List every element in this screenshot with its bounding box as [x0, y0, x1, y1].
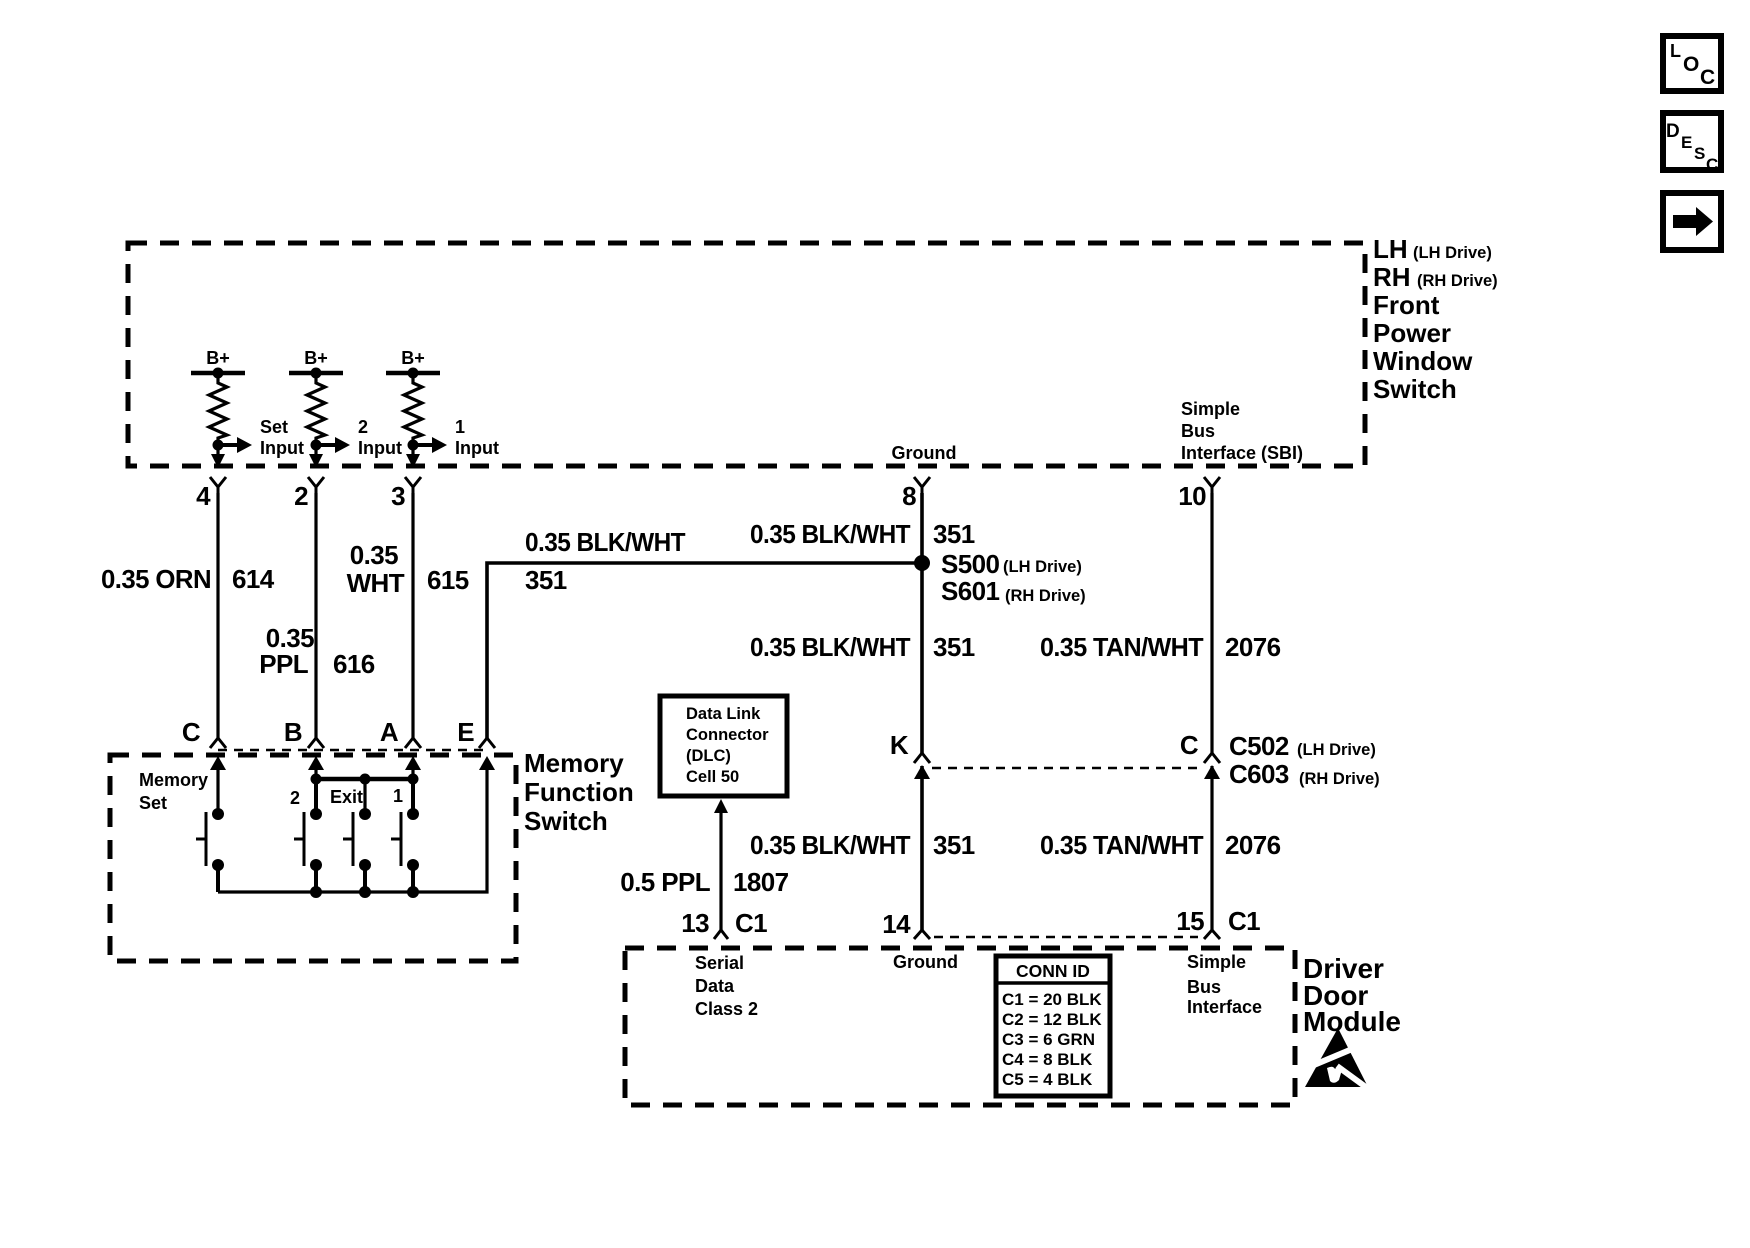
pull-up resistor 1	[209, 373, 227, 445]
svg-text:Data Link: Data Link	[686, 705, 761, 723]
Driver Door Module box	[625, 948, 1295, 1105]
pushbutton switch 2	[294, 808, 322, 892]
svg-text:Cell 50: Cell 50	[686, 768, 739, 786]
Front Power Window Switch box	[128, 243, 1365, 466]
svg-text:C: C	[182, 717, 201, 747]
svg-text:3: 3	[391, 481, 405, 511]
label 0.35 BLK/WHT 351 (mid ground segment)	[750, 632, 975, 662]
B+ supply 2	[289, 348, 343, 379]
wire 616 (0.35 PPL) pin2 to B	[314, 493, 317, 738]
pin 3 connector terminal	[391, 477, 421, 511]
svg-text:Interface: Interface	[1187, 997, 1262, 1017]
CONN ID table	[996, 956, 1110, 1096]
label 0.5 PPL 1807	[620, 867, 788, 897]
svg-text:C1: C1	[735, 908, 767, 938]
svg-text:Input: Input	[260, 438, 304, 458]
pin 10 connector terminal	[1178, 477, 1220, 511]
svg-text:616: 616	[333, 649, 375, 679]
svg-text:(DLC): (DLC)	[686, 747, 731, 765]
label 0.35 ORN 614	[101, 564, 275, 594]
svg-text:2: 2	[358, 417, 368, 437]
junction node and 2 Input arrow	[311, 417, 402, 458]
icon button DESC	[1663, 113, 1721, 174]
svg-text:S500: S500	[941, 549, 999, 579]
svg-text:C5 = 4 BLK: C5 = 4 BLK	[1002, 1070, 1093, 1089]
wire with down arrow to pin 3	[406, 445, 420, 468]
svg-text:13: 13	[681, 908, 709, 938]
svg-text:C2 = 12 BLK: C2 = 12 BLK	[1002, 1010, 1102, 1029]
svg-text:E: E	[1681, 133, 1692, 152]
svg-text:(RH Drive): (RH Drive)	[1299, 770, 1380, 788]
wire B down to switch 2	[314, 779, 318, 814]
in-line connector C (male arrow half)	[1204, 765, 1220, 779]
wire 351 ground: pin 8 down to K	[920, 493, 924, 753]
pin 15 terminal C1	[1176, 906, 1260, 939]
svg-text:B+: B+	[401, 348, 425, 368]
letter K	[890, 730, 909, 760]
svg-text:(RH Drive): (RH Drive)	[1005, 587, 1086, 605]
label Ground (pin 8)	[892, 443, 957, 463]
label Simple Bus Interface (SBI) (pin 10)	[1181, 399, 1303, 463]
svg-text:Exit: Exit	[330, 787, 363, 807]
wire C down to Memory Set switch	[216, 779, 219, 814]
in-line connector half (female) at C	[210, 738, 226, 748]
svg-text:Input: Input	[358, 438, 402, 458]
svg-text:L: L	[1670, 41, 1681, 61]
junction node and 1 Input arrow	[408, 417, 499, 458]
svg-text:Power: Power	[1373, 318, 1451, 348]
svg-text:Connector: Connector	[686, 726, 769, 744]
svg-text:Front: Front	[1373, 290, 1440, 320]
svg-text:Set: Set	[260, 417, 288, 437]
svg-text:351: 351	[933, 830, 975, 860]
svg-text:Ground: Ground	[892, 443, 957, 463]
label 0.35 BLK/WHT 351 (above horizontal run)	[525, 527, 686, 595]
dashed connector link K to C	[932, 767, 1200, 770]
pin 2 connector terminal	[294, 477, 324, 511]
pin 4 connector terminal	[196, 477, 226, 511]
svg-text:C502: C502	[1229, 731, 1289, 761]
Memory Function Switch box	[110, 755, 516, 961]
svg-text:LH: LH	[1373, 234, 1408, 264]
svg-text:B: B	[284, 717, 302, 747]
wire Exit switch drop	[363, 779, 366, 814]
svg-text:Simple: Simple	[1181, 399, 1240, 419]
svg-text:S601: S601	[941, 576, 999, 606]
in-line connector half (male arrow) at A	[405, 756, 421, 779]
junction node and Set Input arrow	[213, 417, 304, 458]
svg-text:2076: 2076	[1225, 632, 1281, 662]
svg-text:C603: C603	[1229, 759, 1289, 789]
svg-text:(RH Drive): (RH Drive)	[1417, 272, 1498, 290]
svg-text:S: S	[1694, 144, 1705, 163]
letter C	[1180, 730, 1199, 760]
switch labels 2 Exit 1	[290, 786, 403, 808]
label 0.35 TAN/WHT 2076 (lower SBI segment)	[1040, 830, 1281, 860]
svg-text:(LH Drive): (LH Drive)	[1297, 741, 1376, 759]
top bus bar linking switches 2/Exit/1	[311, 774, 419, 785]
svg-text:B+: B+	[206, 348, 230, 368]
svg-text:C1 = 20 BLK: C1 = 20 BLK	[1002, 990, 1102, 1009]
svg-text:351: 351	[933, 519, 975, 549]
Data Link Connector (DLC) box	[660, 696, 787, 796]
svg-text:Function: Function	[524, 777, 634, 807]
in-line connector half (male arrow) at E	[479, 756, 495, 779]
svg-text:PPL: PPL	[259, 649, 308, 679]
label S500 (LH Drive) S601 (RH Drive)	[941, 549, 1086, 606]
label Serial Data Class 2	[695, 953, 758, 1019]
svg-text:615: 615	[427, 565, 469, 595]
in-line connector K (female half)	[914, 753, 930, 763]
svg-text:Class 2: Class 2	[695, 999, 758, 1019]
svg-text:D: D	[1666, 121, 1680, 142]
svg-text:10: 10	[1178, 481, 1206, 511]
svg-text:0.35 BLK/WHT: 0.35 BLK/WHT	[750, 632, 911, 662]
svg-text:Ground: Ground	[893, 952, 958, 972]
pin 8 connector terminal	[902, 477, 930, 511]
svg-text:8: 8	[902, 481, 916, 511]
svg-text:Simple: Simple	[1187, 952, 1246, 972]
label Driver Door Module	[1303, 953, 1401, 1037]
svg-text:C: C	[1700, 66, 1715, 89]
svg-text:Memory: Memory	[139, 770, 208, 790]
in-line connector K (male arrow half)	[914, 765, 930, 779]
svg-text:0.35 BLK/WHT: 0.35 BLK/WHT	[525, 527, 686, 557]
svg-text:15: 15	[1176, 906, 1204, 936]
wire A down to switch 1	[411, 779, 415, 814]
svg-text:K: K	[890, 730, 909, 760]
svg-text:Window: Window	[1373, 346, 1473, 376]
in-line connector half (male arrow) at C	[210, 756, 226, 779]
svg-text:1: 1	[393, 786, 403, 806]
svg-text:Data: Data	[695, 976, 735, 996]
in-line connector half (male arrow) at B	[308, 756, 324, 779]
svg-text:Memory: Memory	[524, 748, 624, 778]
label Memory Function Switch	[524, 748, 634, 836]
svg-text:O: O	[1683, 53, 1699, 76]
wire with down arrow to pin 4	[211, 445, 225, 468]
icon button forward arrow	[1663, 193, 1721, 250]
pushbutton switch Exit	[343, 808, 371, 892]
wire with down arrow to pin 2	[309, 445, 323, 468]
in-line connector C (female half)	[1204, 753, 1220, 763]
label Front Power Window Switch	[1373, 234, 1498, 404]
pushbutton switch 1	[391, 808, 419, 892]
svg-text:0.35 ORN: 0.35 ORN	[101, 564, 211, 594]
label Ground (pin 14)	[893, 952, 958, 972]
in-line connector half (female) at B	[308, 738, 324, 748]
svg-text:C: C	[1180, 730, 1199, 760]
svg-text:0.35 TAN/WHT: 0.35 TAN/WHT	[1040, 632, 1204, 662]
svg-text:Bus: Bus	[1187, 977, 1221, 997]
svg-text:2: 2	[294, 481, 308, 511]
svg-text:RH: RH	[1373, 262, 1411, 292]
svg-text:351: 351	[525, 565, 567, 595]
icon button LOC	[1663, 36, 1721, 91]
svg-text:Module: Module	[1303, 1006, 1401, 1037]
svg-text:1807: 1807	[733, 867, 789, 897]
svg-text:Input: Input	[455, 438, 499, 458]
svg-text:4: 4	[196, 481, 211, 511]
svg-text:2076: 2076	[1225, 830, 1281, 860]
in-line connector half (female) at A	[405, 738, 421, 748]
svg-text:Switch: Switch	[524, 806, 608, 836]
label Memory Set	[139, 770, 208, 813]
svg-text:C3 = 6 GRN: C3 = 6 GRN	[1002, 1030, 1095, 1049]
svg-text:0.35 BLK/WHT: 0.35 BLK/WHT	[750, 519, 911, 549]
svg-text:Set: Set	[139, 793, 167, 813]
B+ supply 3	[386, 348, 440, 379]
svg-text:14: 14	[882, 909, 911, 939]
svg-text:(LH Drive): (LH Drive)	[1003, 558, 1082, 576]
svg-text:0.35 TAN/WHT: 0.35 TAN/WHT	[1040, 830, 1204, 860]
svg-text:0.35 BLK/WHT: 0.35 BLK/WHT	[750, 830, 911, 860]
wire 2076 SBI: C down to pin 15	[1210, 766, 1213, 930]
svg-text:E: E	[457, 717, 474, 747]
svg-text:CONN ID: CONN ID	[1016, 961, 1090, 981]
svg-text:Bus: Bus	[1181, 421, 1215, 441]
dashed connector line pin14 to pin15	[934, 936, 1198, 939]
svg-text:C1: C1	[1228, 906, 1260, 936]
svg-text:0.35: 0.35	[350, 540, 398, 570]
svg-text:B+: B+	[304, 348, 328, 368]
wire 615 (0.35 WHT) pin3 to A	[411, 493, 414, 738]
connector line C-B-A-E (dashed)	[218, 749, 490, 752]
pushbutton switch Memory Set	[196, 808, 224, 892]
label Simple Bus Interface (pin 15)	[1187, 952, 1262, 1017]
wire 2076 SBI: pin 10 down to C502	[1210, 493, 1213, 753]
bottom bus of memory switches	[218, 779, 487, 898]
label 0.35 WHT 615	[347, 540, 469, 598]
splice S500/S601	[914, 555, 930, 571]
wire 1807 (0.5 PPL) pin13 up to DLC	[714, 799, 728, 930]
wire 351 horizontal from E to S500	[487, 563, 918, 738]
pin 14 terminal	[882, 909, 930, 939]
svg-text:614: 614	[232, 564, 275, 594]
svg-text:C4 = 8 BLK: C4 = 8 BLK	[1002, 1050, 1093, 1069]
svg-text:Switch: Switch	[1373, 374, 1457, 404]
wire 614 (0.35 ORN) pin4 to C	[216, 493, 219, 738]
svg-text:WHT: WHT	[347, 568, 405, 598]
label C502 (LH Drive) / C603 (RH Drive)	[1229, 731, 1380, 789]
svg-text:Serial: Serial	[695, 953, 744, 973]
wire 351 ground: K down to pin 14	[920, 766, 924, 930]
svg-text:C: C	[1706, 155, 1718, 174]
ESD sensitivity symbol	[1305, 1028, 1374, 1093]
in-line connector half (female) at E	[479, 738, 495, 748]
svg-text:1: 1	[455, 417, 465, 437]
svg-text:(LH Drive): (LH Drive)	[1413, 244, 1492, 262]
label 0.35 TAN/WHT 2076 (mid SBI segment)	[1040, 632, 1281, 662]
svg-text:A: A	[380, 717, 399, 747]
svg-text:Interface (SBI): Interface (SBI)	[1181, 443, 1303, 463]
pull-up resistor 3	[404, 373, 422, 445]
pin 13 terminal C1	[681, 908, 767, 939]
letters C B A E	[182, 717, 474, 747]
label 0.35 BLK/WHT 351 (lower ground segment)	[750, 830, 975, 860]
B+ supply 1	[191, 348, 245, 379]
pull-up resistor 2	[307, 373, 325, 445]
svg-text:351: 351	[933, 632, 975, 662]
label 0.35 PPL 616	[259, 623, 374, 679]
label 0.35 BLK/WHT 351 (upper ground segment)	[750, 519, 975, 549]
svg-text:0.5 PPL: 0.5 PPL	[620, 867, 710, 897]
svg-text:2: 2	[290, 788, 300, 808]
